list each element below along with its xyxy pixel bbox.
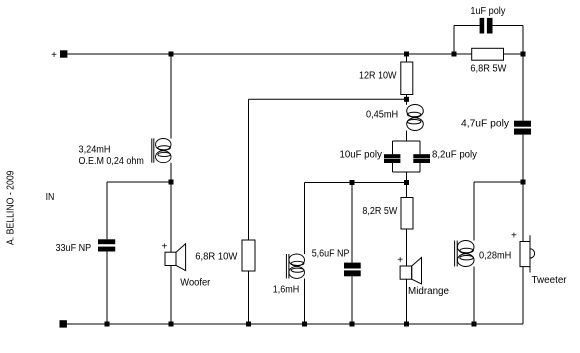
wire midrange branch lower — [406, 279, 408, 324]
resistor 12R 10W — [401, 62, 413, 95]
node bottom rail 33uF — [105, 322, 110, 327]
svg-text:+: + — [511, 231, 517, 242]
inductor L 0,45mH coil — [407, 105, 424, 131]
wire 3,24mH branch upper — [170, 54, 172, 139]
svg-text:8,2uF poly: 8,2uF poly — [432, 150, 477, 161]
wire tweeter section horizontal — [474, 181, 523, 183]
svg-text:Midrange: Midrange — [408, 286, 449, 297]
svg-text:Woofer: Woofer — [180, 278, 211, 289]
svg-text:4,7uF poly: 4,7uF poly — [461, 119, 509, 130]
wire 33uF branch lower — [106, 252, 108, 325]
wire 8,2R to midrange — [406, 229, 408, 266]
wire 1,6mH branch lower — [304, 279, 306, 325]
wire below cap pair — [406, 172, 408, 183]
wire cap pair loop right upper — [419, 141, 421, 154]
node bottom rail 5,6uF — [350, 322, 355, 327]
svg-text:+: + — [51, 50, 57, 61]
wire right rail upper — [522, 54, 524, 121]
node 5,6uF junction — [350, 180, 355, 185]
node tweeter junction — [521, 180, 526, 185]
woofer symbol — [165, 244, 186, 271]
resistor 6,8R 10W — [242, 240, 255, 271]
wire right rail lower — [522, 135, 524, 182]
wire cap pair loop bottom — [393, 171, 421, 173]
svg-text:1,6mH: 1,6mH — [273, 285, 300, 296]
wire bottom rail — [63, 323, 523, 325]
wire 6,8R 10W branch lower — [248, 271, 250, 324]
node bottom rail woofer — [169, 322, 174, 327]
wire top rail right segment — [504, 53, 524, 55]
svg-text:0,45mH: 0,45mH — [366, 110, 398, 121]
wire RC loop top left — [454, 25, 480, 27]
node midrange junction — [404, 180, 409, 185]
svg-text:+: + — [397, 255, 403, 266]
terminal - (input negative) — [60, 320, 67, 327]
wire cap pair loop right lower — [419, 163, 421, 172]
wire woofer branch lower — [170, 266, 172, 325]
wire below 12R — [406, 95, 408, 105]
svg-text:+: + — [161, 241, 167, 252]
node bottom rail 1,6mH — [302, 322, 307, 327]
wire tweeter branch lower — [522, 267, 524, 324]
node bottom rail 0,28mH — [472, 322, 477, 327]
node top rail / RC loop left — [452, 52, 457, 57]
inductor L 1,6mH coil — [289, 254, 305, 278]
resistor 6,8R 5W — [472, 48, 504, 60]
svg-text:33uF NP: 33uF NP — [56, 243, 92, 254]
svg-text:5,6uF NP: 5,6uF NP — [312, 249, 350, 260]
wire 5,6uF branch upper — [351, 183, 353, 263]
svg-text:IN: IN — [46, 192, 55, 203]
wire 12R branch top — [406, 54, 408, 62]
wire cap pair loop left upper — [392, 141, 394, 154]
resistor 8,2R 5W — [401, 198, 413, 230]
midrange symbol — [400, 258, 421, 285]
capacitor 8,2uF poly — [413, 154, 430, 163]
capacitor 1uF poly — [480, 18, 493, 34]
node bottom rail 6,8R 10W — [246, 322, 251, 327]
svg-text:1uF poly: 1uF poly — [470, 6, 505, 17]
wire woofer branch upper — [170, 182, 172, 252]
capacitor 4,7uF poly — [514, 121, 531, 135]
wire top rail — [67, 53, 471, 55]
wire 6,8R 10W branch upper — [248, 99, 250, 240]
node below 12R — [404, 97, 409, 102]
terminal + (input positive) — [60, 50, 67, 57]
node bottom rail midrange — [404, 322, 409, 327]
wire horizontal to 6,8R 10W branch — [249, 98, 407, 100]
tweeter symbol — [520, 235, 535, 272]
wire 5,6uF branch lower — [351, 276, 353, 324]
wire cap pair loop left lower — [392, 163, 394, 172]
wire mid segment center — [305, 182, 407, 184]
svg-text:A. BELLINO - 2009: A. BELLINO - 2009 — [6, 170, 17, 245]
svg-text:3,24mH: 3,24mH — [79, 145, 111, 156]
node woofer junction — [169, 180, 174, 185]
svg-text:O.E.M 0,24 ohm: O.E.M 0,24 ohm — [79, 156, 144, 167]
svg-text:Tweeter: Tweeter — [532, 275, 568, 286]
node top rail / 12R branch — [404, 52, 409, 57]
capacitor 10uF poly — [384, 154, 400, 163]
capacitor 33uF NP — [98, 239, 115, 251]
wire below 0,45mH — [406, 131, 408, 142]
wire tweeter branch upper — [522, 182, 524, 242]
wire RC loop right vertical — [522, 26, 524, 55]
svg-text:6,8R 5W: 6,8R 5W — [470, 63, 507, 74]
wire RC loop left vertical — [453, 26, 455, 55]
node top rail / 3,24mH branch — [169, 52, 174, 57]
wire 0,28mH branch upper — [473, 182, 475, 241]
wire 1,6mH branch upper — [304, 183, 306, 255]
wire 8,2R branch upper — [406, 183, 408, 198]
wire 3,24mH branch lower — [170, 163, 172, 182]
svg-text:12R 10W: 12R 10W — [359, 71, 397, 82]
capacitor 5,6uF NP — [344, 263, 361, 277]
core lines 1,6mH — [285, 254, 287, 279]
inductor L 3,24mH coil — [156, 139, 171, 163]
wire cap pair loop top — [393, 140, 421, 142]
wire RC loop top right — [493, 25, 524, 27]
svg-text:6,8R 10W: 6,8R 10W — [195, 252, 238, 263]
svg-text:8,2R 5W: 8,2R 5W — [362, 206, 397, 217]
core lines 0,28mH — [454, 241, 456, 267]
svg-text:10uF poly: 10uF poly — [340, 150, 382, 161]
wire 33uF branch upper — [106, 182, 108, 239]
inductor L 0,28mH coil — [457, 241, 474, 267]
core lines 3,24mH — [151, 138, 153, 162]
wire 0,28mH branch lower — [473, 267, 475, 325]
wire mid segment left — [107, 181, 171, 183]
svg-text:0,28mH: 0,28mH — [479, 251, 511, 262]
node top rail / RC loop right — [521, 52, 526, 57]
